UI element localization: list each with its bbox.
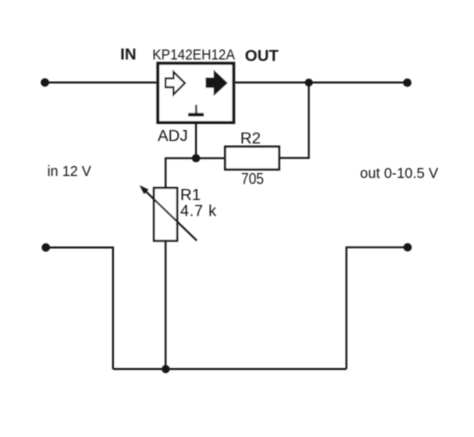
wire ADJ node to R2 — [196, 157, 225, 159]
wire bottom-left branch — [46, 248, 113, 370]
pin IN arrow (outline) — [166, 72, 185, 95]
node output top terminal — [403, 79, 411, 87]
wire R1 bottom lead — [165, 241, 167, 369]
svg-text:705: 705 — [241, 171, 264, 188]
svg-text:OUT: OUT — [245, 48, 279, 65]
wire top-left input — [45, 82, 156, 84]
wire feedback vertical from OUT node — [279, 83, 309, 158]
node ADJ junction — [192, 154, 200, 162]
svg-text:R1: R1 — [180, 187, 201, 204]
svg-text:R2: R2 — [240, 131, 261, 148]
svg-text:4.7 k: 4.7 k — [180, 203, 216, 220]
svg-text:out 0-10.5 V: out 0-10.5 V — [360, 165, 438, 182]
R1 wiper arrow diagonal — [142, 187, 197, 240]
svg-text:IN: IN — [120, 46, 136, 63]
pin ADJ symbol inside box — [195, 105, 197, 113]
wire top-right output — [235, 82, 407, 84]
svg-text:KP142EH12A: KP142EH12A — [152, 46, 235, 63]
op-amp U1 regulator KP142EH12A box — [158, 63, 234, 122]
wire bottom rail — [113, 368, 346, 370]
pin OUT arrow (solid) — [206, 71, 227, 95]
wire ADJ pin down — [195, 124, 197, 158]
svg-text:ADJ: ADJ — [158, 128, 188, 145]
svg-text:in 12 V: in 12 V — [47, 163, 91, 180]
wire ADJ node to R1 top — [166, 158, 196, 188]
node input top terminal — [41, 78, 49, 86]
node bottom rail junction — [162, 365, 170, 373]
wire bottom-right branch — [346, 247, 407, 369]
resistor R1 (variable) — [154, 188, 177, 241]
node input bottom terminal — [42, 243, 50, 251]
node output bottom terminal — [403, 243, 411, 251]
node OUT junction — [305, 79, 313, 87]
resistor R2 — [225, 147, 279, 170]
